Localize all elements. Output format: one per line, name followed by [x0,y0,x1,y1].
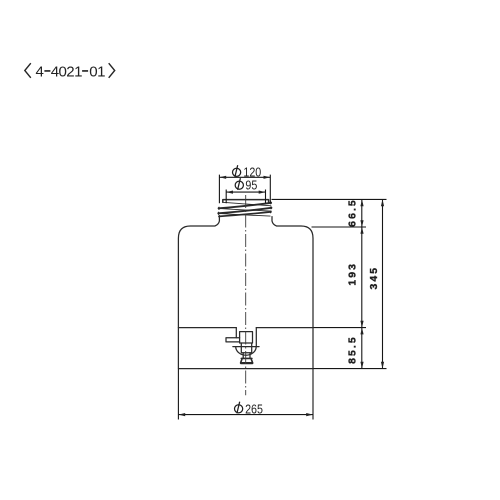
spigot lever [226,338,240,342]
thread band 3 [219,212,271,217]
right top extension line [272,198,387,200]
dim phi120 line [219,176,270,178]
spigot nozzle tip bar [241,362,253,364]
arrowheads 66.5 [360,199,363,206]
arrowheads 345 [381,199,384,206]
dim 66.5/193/85.5 line [361,199,363,368]
neck thread lip [223,200,269,203]
spigot dome arc [236,347,257,356]
thread band 1 [219,203,272,209]
right bottom extension line [314,368,387,370]
right shoulder extension line [312,226,367,228]
bottle body outline [178,217,313,369]
part number label dashes [44,70,88,72]
part number label open bracket [25,63,31,78]
spigot notch right [255,328,257,347]
svg-text:66.5: 66.5 [347,198,358,227]
thread band end bulges [218,202,272,218]
spigot dome chord [233,346,259,348]
spigot notch left [235,328,237,338]
dim phi265 extension lines [178,369,313,420]
dim phi95 line [226,191,265,193]
arrowheads phi265 [178,413,185,416]
spigot lower neck [243,353,250,359]
dim phi120 extension lines [219,175,270,204]
svg-text:345: 345 [369,266,380,290]
svg-text:85.5: 85.5 [347,335,358,364]
arrowheads 85.5 [360,328,363,335]
dim phi95 extension lines [226,190,265,204]
arrowheads phi95 [226,191,233,194]
svg-text:4402101: 4402101 [36,64,106,81]
part number label close bracket [109,63,115,78]
svg-text:95: 95 [245,179,257,193]
dim 345 line [382,199,384,368]
spigot valve body [240,332,253,343]
svg-text:193: 193 [347,262,358,286]
svg-text:265: 265 [245,403,263,417]
arrowheads 193 [360,227,363,234]
arrowheads phi120 [219,176,226,179]
thread back lines [219,202,272,216]
center line [245,195,247,395]
label phi95 [235,178,258,192]
dim phi265 line [178,414,313,416]
label phi120 [233,165,262,180]
spigot stem [241,343,251,353]
bottom section divide line [178,327,313,329]
spigot nozzle [241,358,253,362]
thread band 2 [218,208,271,214]
right divide extension line [314,327,367,329]
label phi265 [235,402,264,417]
